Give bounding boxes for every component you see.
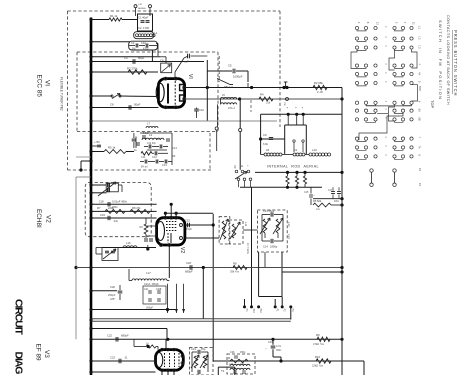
- svg-text:C20: C20: [110, 285, 115, 289]
- svg-text:T3: T3: [221, 369, 225, 373]
- svg-text:22kΩ ½w: 22kΩ ½w: [312, 364, 323, 368]
- svg-text:~: ~: [314, 193, 316, 197]
- svg-text:15: 15: [418, 168, 422, 172]
- svg-text:250p: 250p: [240, 351, 246, 354]
- svg-text:C11: C11: [141, 155, 146, 159]
- svg-text:C19: C19: [100, 213, 105, 217]
- svg-text:L8: L8: [266, 148, 270, 152]
- svg-text:C21: C21: [144, 288, 149, 291]
- svg-text:CIRCUIT: CIRCUIT: [12, 299, 24, 336]
- svg-text:R5 1k: R5 1k: [108, 146, 116, 150]
- svg-text:L17: L17: [146, 271, 151, 275]
- svg-text:C4A: C4A: [156, 138, 161, 141]
- svg-text:65p: 65p: [201, 347, 206, 351]
- svg-text:R7: R7: [97, 206, 101, 210]
- svg-text:C18: C18: [99, 199, 104, 203]
- svg-text:V2: V2: [179, 247, 185, 253]
- svg-text:FM: FM: [139, 4, 142, 6]
- svg-text:220k: 220k: [108, 206, 114, 210]
- svg-text:10.7 Mc/s: 10.7 Mc/s: [246, 243, 249, 255]
- svg-text:FLEXIBLE TUNER PB2: FLEXIBLE TUNER PB2: [60, 77, 64, 111]
- svg-text:ECH8I: ECH8I: [35, 209, 42, 228]
- svg-text:C17: C17: [328, 190, 333, 192]
- svg-text:CONTACTS LOOKING AT BACK OF SW: CONTACTS LOOKING AT BACK OF SWITCH: [446, 15, 450, 105]
- svg-text:C12 30p: C12 30p: [147, 143, 156, 145]
- svg-text:C15: C15: [304, 191, 309, 194]
- svg-text:uuF: uuF: [184, 60, 189, 64]
- svg-text:~: ~: [265, 346, 267, 350]
- svg-text:TOP: TOP: [418, 86, 422, 92]
- svg-text:L12: L12: [287, 222, 291, 227]
- svg-text:R8: R8: [233, 262, 237, 266]
- svg-text:4700: 4700: [143, 47, 149, 50]
- svg-text:PRESS BUTTON SWITCH: PRESS BUTTON SWITCH: [453, 30, 458, 96]
- svg-text:6B: 6B: [418, 117, 422, 120]
- svg-text:EF 89: EF 89: [35, 344, 42, 361]
- svg-text:11: 11: [412, 22, 416, 25]
- svg-text:12: 12: [376, 22, 380, 26]
- svg-text:.01: .01: [124, 356, 128, 360]
- svg-text:C26: C26: [230, 351, 235, 354]
- svg-text:L9: L9: [294, 148, 298, 152]
- svg-text:C5: C5: [228, 64, 232, 68]
- svg-text:L3: L3: [418, 46, 422, 49]
- svg-text:TOP: TOP: [430, 100, 435, 108]
- svg-text:450v: 450v: [276, 349, 282, 352]
- svg-text:1700: 1700: [143, 26, 149, 30]
- svg-text:R5 82k: R5 82k: [313, 199, 322, 203]
- svg-text:L1: L1: [155, 31, 159, 35]
- svg-text:C2: C2: [138, 26, 142, 30]
- svg-text:70pF: 70pF: [186, 227, 192, 231]
- svg-text:L7: L7: [147, 122, 150, 126]
- svg-text:C4: C4: [124, 56, 128, 60]
- svg-text:L18: L18: [229, 363, 234, 366]
- svg-text:R4: R4: [260, 93, 264, 97]
- svg-text:400v: 400v: [334, 201, 340, 203]
- svg-text:C12: C12: [152, 155, 157, 159]
- svg-text:C21A 365pF: C21A 365pF: [144, 283, 159, 286]
- svg-text:R2 68k: R2 68k: [314, 81, 323, 85]
- svg-text:P12: P12: [259, 309, 262, 314]
- svg-text:425°: 425°: [110, 297, 115, 301]
- svg-text:680pF: 680pF: [185, 270, 193, 274]
- svg-text:R1 1k: R1 1k: [110, 14, 118, 18]
- svg-text:L19: L19: [240, 363, 245, 366]
- svg-text:R10: R10: [315, 355, 321, 359]
- svg-text:¼ W: ¼ W: [317, 90, 323, 94]
- svg-text:L10: L10: [312, 148, 317, 152]
- svg-text:C1 40pF: C1 40pF: [138, 16, 149, 20]
- svg-text:27Ω+3: 27Ω+3: [228, 108, 236, 110]
- svg-text:1000pF: 1000pF: [233, 75, 243, 79]
- svg-text:ECC 85: ECC 85: [36, 75, 43, 98]
- svg-text:L2: L2: [418, 37, 422, 40]
- svg-text:VI: VI: [187, 74, 193, 79]
- svg-text:C2IB: C2IB: [156, 288, 162, 291]
- svg-text:V2: V2: [45, 215, 52, 223]
- svg-text:R9: R9: [316, 333, 320, 337]
- svg-text:250pF: 250pF: [108, 293, 116, 297]
- svg-text:L13: L13: [287, 234, 291, 239]
- svg-text:5% tol: 5% tol: [141, 166, 148, 169]
- svg-text:680pF: 680pF: [121, 334, 129, 338]
- svg-text:16: 16: [418, 183, 422, 187]
- svg-text:.04u: .04u: [113, 219, 119, 223]
- svg-text:39k ¼w: 39k ¼w: [230, 270, 239, 274]
- svg-text:50pF: 50pF: [134, 103, 141, 107]
- svg-text:L11: L11: [244, 222, 248, 227]
- svg-text:7A: 7A: [418, 145, 422, 148]
- svg-text:C9: C9: [263, 133, 267, 137]
- svg-text:C3A: C3A: [141, 41, 146, 45]
- svg-text:21k: 21k: [266, 101, 271, 105]
- svg-text:C3: C3: [131, 41, 135, 45]
- svg-text:V3: V3: [43, 350, 50, 358]
- svg-text:6A: 6A: [418, 109, 422, 112]
- svg-text:R3 270k: R3 270k: [127, 67, 138, 71]
- svg-text:M: M: [240, 165, 242, 167]
- svg-text:PB 2·3: PB 2·3: [224, 85, 233, 89]
- svg-text:L1: L1: [418, 26, 422, 29]
- svg-text:1800p: 1800p: [270, 245, 278, 249]
- svg-text:C13 65pF: C13 65pF: [263, 209, 275, 213]
- svg-text:C23: C23: [110, 356, 115, 360]
- svg-text:C15: C15: [185, 219, 190, 223]
- svg-text:0.01uF 450v: 0.01uF 450v: [112, 199, 128, 203]
- svg-text:47kΩ ½w: 47kΩ ½w: [313, 342, 324, 346]
- svg-text:P10: P10: [252, 309, 255, 314]
- svg-text:C8: C8: [110, 103, 114, 107]
- svg-text:C14: C14: [172, 146, 177, 150]
- svg-text:AERIAL: AERIAL: [138, 7, 147, 10]
- svg-text:¼w: ¼w: [316, 208, 320, 211]
- svg-text:C18: C18: [186, 261, 191, 265]
- svg-text:VI: VI: [44, 80, 51, 86]
- svg-text:0.01: 0.01: [276, 345, 281, 348]
- svg-text:C13: C13: [162, 163, 167, 167]
- svg-text:INTERNAL ROD AERIAL: INTERNAL ROD AERIAL: [267, 165, 319, 169]
- svg-text:L16: L16: [126, 241, 131, 245]
- svg-text:4A: 4A: [418, 72, 422, 75]
- svg-text:DIAG: DIAG: [12, 352, 24, 375]
- svg-text:R6: R6: [172, 154, 176, 158]
- svg-text:C14: C14: [263, 245, 268, 249]
- svg-text:FM: FM: [233, 165, 235, 168]
- svg-text:C22: C22: [107, 334, 112, 338]
- svg-text:C10: C10: [199, 108, 204, 112]
- svg-text:L3: L3: [149, 133, 153, 137]
- svg-text:C24: C24: [191, 347, 196, 351]
- svg-text:R8 47k: R8 47k: [132, 206, 141, 210]
- svg-text:+760: +760: [94, 141, 100, 144]
- svg-text:60pF: 60pF: [138, 56, 145, 60]
- svg-text:SWITCH IN FM POSITION: SWITCH IN FM POSITION: [438, 20, 443, 100]
- svg-text:6.8p: 6.8p: [263, 142, 269, 146]
